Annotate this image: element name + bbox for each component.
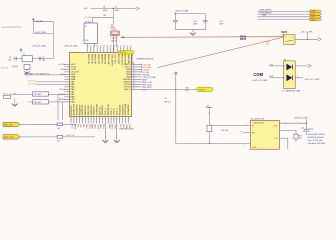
svg-text:=Vout: =Vout: [308, 128, 313, 131]
svg-text:+3V3_ST: +3V3_ST: [0, 68, 9, 70]
svg-text:VDDG: VDDG: [111, 124, 113, 130]
svg-text:PB13/TIM: PB13/TIM: [90, 54, 92, 64]
svg-text:2: 2: [122, 119, 123, 121]
capacitor C5: [38, 57, 40, 61]
capacitor C27: [204, 14, 206, 21]
wire U4 third pin: [279, 137, 288, 139]
switch SW3 body: [284, 35, 295, 45]
svg-text:PD1/OSCO: PD1/OSCO: [120, 54, 122, 66]
ground under mcu pin PA0: [102, 140, 109, 143]
svg-text:+5V_M: +5V_M: [58, 64, 64, 66]
wire +5V rail: [91, 7, 137, 9]
svg-text:PB14/TIM: PB14/TIM: [94, 54, 96, 64]
svg-text:R16 4K7: R16 4K7: [34, 102, 41, 104]
bottom rail wire: [176, 143, 251, 145]
capacitor C4: [14, 57, 16, 61]
svg-text:PA11/USB: PA11/USB: [104, 54, 107, 65]
wire swd bus to mcu: [24, 74, 65, 76]
regulator U5 body: [84, 23, 97, 44]
wire S8_JW: [33, 20, 53, 22]
svg-text:4: 4: [298, 76, 299, 78]
svg-text:C11 104: C11 104: [221, 130, 228, 132]
svg-text:38: 38: [133, 83, 135, 85]
svg-text:VSS_2: VSS_2: [105, 108, 107, 116]
capacitor C6 body: [24, 65, 30, 70]
wire vertical to crystal rail: [52, 21, 54, 58]
wire up to +5V_Q_LINK label: [306, 33, 308, 40]
wire vertical +5V to R19: [208, 110, 210, 125]
svg-text:VSSA/GND: VSSA/GND: [96, 103, 99, 115]
wire R16 left stub: [29, 101, 33, 103]
svg-text:x: x: [246, 124, 247, 126]
svg-text:32: 32: [133, 68, 135, 70]
crystal Y1: [22, 56, 33, 62]
svg-text:30: 30: [133, 63, 135, 65]
svg-text:SS14: SS14: [103, 10, 107, 12]
svg-text:TXD: TXD: [269, 64, 273, 66]
svg-text:+3V3_ST_LINK: +3V3_ST_LINK: [32, 46, 47, 48]
svg-text:PA12/USB: PA12/USB: [107, 54, 110, 65]
svg-text:PA2G: PA2G: [99, 124, 102, 129]
capacitor C7: [305, 123, 307, 129]
wire D2 to power arrow: [295, 65, 308, 67]
svg-text:OSC_IN/PD: OSC_IN/PD: [110, 54, 112, 66]
svg-text:SS14: SS14: [115, 10, 119, 12]
svg-text:Vref = 1.25V Iadj: Vref = 1.25V Iadj: [308, 139, 323, 142]
svg-text:2: 2: [76, 119, 77, 121]
wire up to +3V3 label: [305, 119, 307, 123]
svg-text:PA3G: PA3G: [93, 124, 96, 129]
svg-text:2: 2: [94, 119, 95, 121]
svg-text:C6 104: C6 104: [12, 66, 18, 68]
svg-text:+3V3_ST_LINK: +3V3_ST_LINK: [294, 118, 309, 120]
svg-text:20p: 20p: [8, 59, 11, 61]
svg-text:2: 2: [96, 119, 97, 121]
junction on JTDI wire: [175, 89, 176, 90]
svg-text:37: 37: [133, 81, 135, 83]
wire below R17: [295, 139, 297, 142]
svg-text:PB2/BOOT: PB2/BOOT: [122, 104, 124, 116]
wire crystal rail: [14, 58, 54, 60]
wire to port JTDI: [258, 16, 311, 18]
svg-text:SWCLK: SWCLK: [198, 89, 206, 91]
svg-text:GND_1: GND_1: [124, 89, 132, 91]
red no-erc cross: [174, 72, 177, 75]
svg-text:2: 2: [117, 119, 118, 121]
capacitor C26: [175, 14, 177, 21]
regulator U4 body: [250, 120, 279, 149]
wire +5V_MC: [93, 16, 114, 18]
wire vertical from S8_JW: [32, 21, 34, 33]
svg-text:1: 1: [285, 37, 286, 39]
svg-text:PB0: PB0: [79, 124, 81, 127]
wire Y2 to mcu osc_in: [112, 35, 114, 52]
svg-text:103: 103: [103, 15, 106, 17]
svg-text:2: 2: [114, 119, 115, 121]
svg-text:33: 33: [133, 71, 135, 73]
svg-text:2: 2: [128, 119, 129, 121]
ground below SB1: [12, 104, 18, 107]
svg-text:2: 2: [108, 119, 109, 121]
svg-text:C10 22p: C10 22p: [111, 37, 117, 39]
svg-text:21: 21: [120, 45, 122, 47]
wire down from +5V rail: [112, 8, 114, 24]
svg-text:101: 101: [299, 138, 302, 140]
svg-text:(+3V3_ST_LINK): (+3V3_ST_LINK): [252, 80, 268, 82]
svg-text:Separated PCCord: Separated PCCord: [2, 26, 22, 29]
svg-text:=55uA typ R2=120R: =55uA typ R2=120R: [308, 142, 326, 145]
ports JTMS JTCK JTDI JTDO: [310, 10, 322, 21]
svg-text:26: 26: [106, 45, 108, 47]
svg-text:PA5/SCK1: PA5/SCK1: [87, 104, 90, 115]
svg-text:2: 2: [71, 119, 72, 121]
crystal Y2 body: [112, 31, 118, 34]
svg-text:Vout=Vref(1+R1/R2): Vout=Vref(1+R1/R2): [308, 133, 325, 136]
port PA9_TXD: [3, 122, 20, 126]
svg-text:PB10/SCL: PB10/SCL: [71, 104, 73, 115]
wire U4 OUT: [279, 122, 306, 124]
svg-text:PA8/MCO: PA8/MCO: [100, 54, 103, 64]
svg-text:JTDI: JTDI: [262, 15, 266, 17]
svg-text:PA0G: PA0G: [108, 124, 111, 129]
svg-text:PA9_TXD: PA9_TXD: [4, 123, 13, 126]
svg-text:PA2/TX2: PA2/TX2: [98, 106, 101, 115]
svg-text:2: 2: [85, 119, 86, 121]
svg-text:PD0/OSCI: PD0/OSCI: [117, 54, 119, 65]
svg-text:SOT23: SOT23: [164, 101, 170, 103]
svg-text:AGND: AGND: [73, 124, 76, 130]
svg-text:PA4G: PA4G: [91, 124, 94, 129]
wire PA10 continues: [63, 136, 95, 138]
wire vertical bus a: [57, 94, 59, 120]
svg-text:x: x: [243, 144, 244, 146]
svg-text:SW3: SW3: [281, 30, 288, 34]
svg-text:+3V3_ST_LINK: +3V3_ST_LINK: [304, 79, 320, 81]
svg-text:D5: D5: [115, 6, 117, 8]
svg-text:VDD_1: VDD_1: [117, 107, 119, 115]
wire RXD to D2: [270, 77, 284, 79]
svg-text:39: 39: [133, 86, 135, 88]
svg-text:SCL1: SCL1: [59, 89, 63, 91]
svg-text:+C7: +C7: [301, 128, 304, 130]
svg-text:+3V3_ST_LINK: +3V3_ST_LINK: [174, 11, 189, 13]
resistor R17: [294, 134, 298, 139]
svg-text:27: 27: [110, 45, 112, 47]
svg-text:PA4/NSS1: PA4/NSS1: [90, 104, 93, 115]
svg-text:(+3V3_ST_LINK): (+3V3_ST_LINK): [119, 128, 134, 130]
svg-text:PA0/WKUP: PA0/WKUP: [107, 104, 110, 116]
svg-text:2: 2: [88, 119, 89, 121]
svg-text:x: x: [291, 137, 292, 139]
svg-text:PA7/MOSI: PA7/MOSI: [81, 105, 84, 116]
highlighted net label pill: [197, 87, 214, 91]
resistor R22 inline: [57, 136, 63, 139]
wire cap pair bottom: [176, 29, 206, 31]
svg-text:2: 2: [74, 119, 75, 121]
wire U5 top: [92, 17, 94, 23]
wire TXD to D2: [270, 65, 284, 67]
svg-text:D4: D4: [103, 6, 105, 8]
red pointer line B: [158, 37, 284, 67]
svg-text:24: 24: [100, 45, 102, 47]
svg-text:2: 2: [125, 119, 126, 121]
svg-text:2: 2: [82, 119, 83, 121]
svg-text:2: 2: [119, 119, 120, 121]
power port arrow right of D2: [308, 64, 311, 67]
mcu U1 left pins and interior names: [58, 64, 80, 104]
svg-text:PA1G: PA1G: [102, 124, 105, 129]
svg-text:AGND/VSS: AGND/VSS: [73, 103, 76, 115]
svg-text:Y1: Y1: [23, 54, 25, 56]
wire Y2 to mcu osc_out: [116, 35, 118, 47]
wire PA9 continues: [63, 123, 76, 125]
wire R15 to mcu: [49, 93, 65, 95]
wire cap pair top: [176, 13, 206, 15]
wire PC0 to mcu: [36, 81, 65, 83]
wire PC1 to mcu: [36, 83, 65, 85]
wire to port JTDO: [258, 19, 311, 21]
svg-text:PA6/MISO: PA6/MISO: [84, 105, 87, 115]
svg-text:S8_JW: S8_JW: [36, 21, 43, 23]
ground below C6: [26, 69, 28, 71]
power port arrow right on +5V rail: [136, 7, 139, 10]
svg-text:2: 2: [99, 119, 100, 121]
svg-text:PB15/TIM: PB15/TIM: [97, 54, 99, 64]
svg-text:2: 2: [102, 119, 103, 121]
svg-text:PB1: PB1: [76, 124, 78, 127]
svg-text:VSSA: VSSA: [96, 124, 99, 130]
svg-text:23: 23: [96, 45, 98, 47]
resistor R15: [33, 92, 49, 96]
resistor R21 inline: [57, 123, 63, 126]
svg-text:20p: 20p: [42, 59, 45, 61]
diode D2 body: [284, 61, 296, 89]
svg-text:JTDO: JTDO: [311, 19, 316, 21]
svg-text:PA1/ADC1: PA1/ADC1: [101, 104, 104, 115]
svg-text:PA10_RXD: PA10_RXD: [4, 136, 14, 139]
svg-text:2: 2: [79, 119, 80, 121]
svg-text:40: 40: [133, 88, 135, 90]
wire from PA10_RXD port: [20, 136, 57, 138]
wire +5V to regulator IN: [212, 124, 251, 126]
svg-text:VSSG: VSSG: [114, 124, 116, 130]
svg-text:PB9M: PB9M: [59, 99, 64, 101]
svg-text:PB0/ADC8: PB0/ADC8: [78, 104, 81, 115]
svg-text:+3V3_D5: +3V3_D5: [66, 135, 75, 137]
svg-text:36: 36: [133, 78, 135, 80]
svg-text:R15 4K7: R15 4K7: [34, 94, 41, 96]
svg-text:2: 2: [292, 37, 293, 39]
svg-text:OSC_OUT: OSC_OUT: [114, 54, 116, 65]
svg-text:VSS_1: VSS_1: [114, 108, 116, 116]
wire U5 to mcu pin a: [87, 44, 89, 48]
svg-text:31: 31: [133, 66, 135, 68]
power arrow above crystal Y1: [20, 49, 23, 53]
wire SW3 to power arrow: [295, 38, 318, 40]
wire vertical bus b: [62, 102, 64, 120]
svg-text:U6: U6: [164, 98, 166, 100]
svg-text:PA7: PA7: [82, 124, 85, 127]
highlighted net OSC on mcu top edge: [118, 51, 134, 54]
wire R16 to mcu: [49, 101, 65, 103]
junction U4 OUT b: [306, 123, 307, 124]
ground under mcu pin VSS: [113, 140, 120, 143]
solder bridge SB1: [4, 95, 11, 98]
resistor R16: [33, 100, 49, 104]
svg-text:21: 21: [90, 45, 92, 47]
wire U5 to mcu pin b: [94, 44, 96, 48]
svg-text:STM32F103C8T6: STM32F103C8T6: [137, 58, 154, 60]
power port arrow right of SW3: [318, 38, 321, 41]
wire to port JTCK: [258, 13, 311, 15]
diode D2 upper element: [286, 64, 292, 71]
svg-text:+3V_PC0: +3V_PC0: [27, 81, 35, 83]
diode D2 lower element: [286, 74, 292, 81]
svg-text:PA6G: PA6G: [85, 124, 88, 129]
svg-text:OSC_IN: OSC_IN: [119, 52, 126, 54]
power port above JTAG wires: [32, 19, 35, 22]
svg-text:AD4: AD4: [60, 73, 63, 76]
svg-text:VDDA/REF: VDDA/REF: [127, 103, 130, 115]
svg-text:D_CATHODE_CAN: D_CATHODE_CAN: [283, 90, 301, 93]
svg-text:22: 22: [123, 45, 125, 47]
svg-text:x: x: [242, 133, 243, 135]
svg-text:C13: C13: [60, 69, 63, 71]
wire to port JTMS: [258, 10, 311, 12]
svg-text:R1=R2(Vout/Vref-1): R1=R2(Vout/Vref-1): [308, 136, 325, 139]
wire R19 to bottom rail: [208, 132, 210, 144]
svg-text:PB10: PB10: [71, 124, 73, 128]
svg-text:JTMS_SWDIO: JTMS_SWDIO: [259, 10, 272, 12]
svg-text:VDD_2: VDD_2: [111, 107, 113, 115]
mcu U1 top pins with numbers and rotated names: [87, 45, 133, 66]
wire vertical from cross to bottom rail: [175, 75, 177, 144]
red pointer line A with arrowhead: [121, 36, 283, 39]
svg-text:+5V: +5V: [84, 8, 88, 10]
wire JTDO: [33, 33, 53, 35]
svg-text:+3V_PC1: +3V_PC1: [27, 84, 35, 86]
svg-text:DRV8: DRV8: [240, 39, 247, 41]
mcu U1 bottom pins with numbers and rotated net labels: [71, 103, 131, 139]
svg-text:25: 25: [103, 45, 105, 47]
svg-text:+3V3_ST_LINK: +3V3_ST_LINK: [64, 46, 79, 48]
svg-text:2: 2: [91, 119, 92, 121]
svg-text:+3V3_JTDO: +3V3_JTDO: [35, 32, 47, 34]
svg-text:COM: COM: [253, 72, 263, 77]
wire D2 lower right: [295, 77, 303, 79]
svg-text:24: 24: [130, 45, 132, 47]
resistor R19: [207, 125, 212, 131]
svg-text:35: 35: [133, 76, 135, 78]
mcu U1 right pins with net labels: [123, 63, 156, 91]
wire U4 FB stub: [244, 131, 251, 133]
junction +5V wire: [209, 113, 210, 114]
wire SB1 to R15: [11, 93, 33, 95]
svg-text:+5V_MC: +5V_MC: [84, 17, 92, 19]
svg-text:+5V_Q_LINK: +5V_Q_LINK: [301, 31, 314, 33]
svg-text:PB11/SDA: PB11/SDA: [118, 104, 121, 115]
svg-text:TMS_SWDIO TCK_SWCLK TDI: TMS_SWDIO TCK_SWCLK TDI: [24, 73, 50, 75]
svg-text:PB1/ADC9: PB1/ADC9: [76, 104, 79, 115]
svg-text:PA5G: PA5G: [88, 124, 91, 129]
svg-text:RXD: RXD: [269, 76, 274, 78]
svg-text:GND: GND: [252, 147, 257, 149]
junction on +5V rail: [113, 8, 114, 9]
svg-text:PA3/RX2: PA3/RX2: [93, 106, 96, 116]
svg-text:DRV8: DRV8: [240, 36, 247, 38]
junction U4 OUT a: [285, 123, 286, 124]
svg-text:LD1117DT33: LD1117DT33: [253, 122, 263, 124]
svg-text:23: 23: [126, 45, 128, 47]
mcu U1 body: [70, 52, 132, 116]
wire from PA9_TXD port: [20, 123, 57, 125]
wire U4 to R17: [279, 129, 296, 131]
port PA10_RXD: [3, 135, 20, 139]
svg-text:GND/VSSA: GND/VSSA: [124, 103, 127, 115]
svg-text:JTCK_SWCLK: JTCK_SWCLK: [259, 12, 272, 14]
svg-text:2: 2: [105, 119, 106, 121]
ground below cap pair: [192, 30, 194, 33]
junction SW3 right: [307, 39, 308, 40]
svg-text:PB12/TIM: PB12/TIM: [87, 54, 89, 64]
wire JTDI long: [142, 88, 197, 90]
svg-text:2: 2: [111, 119, 112, 121]
svg-text:34: 34: [133, 73, 135, 75]
